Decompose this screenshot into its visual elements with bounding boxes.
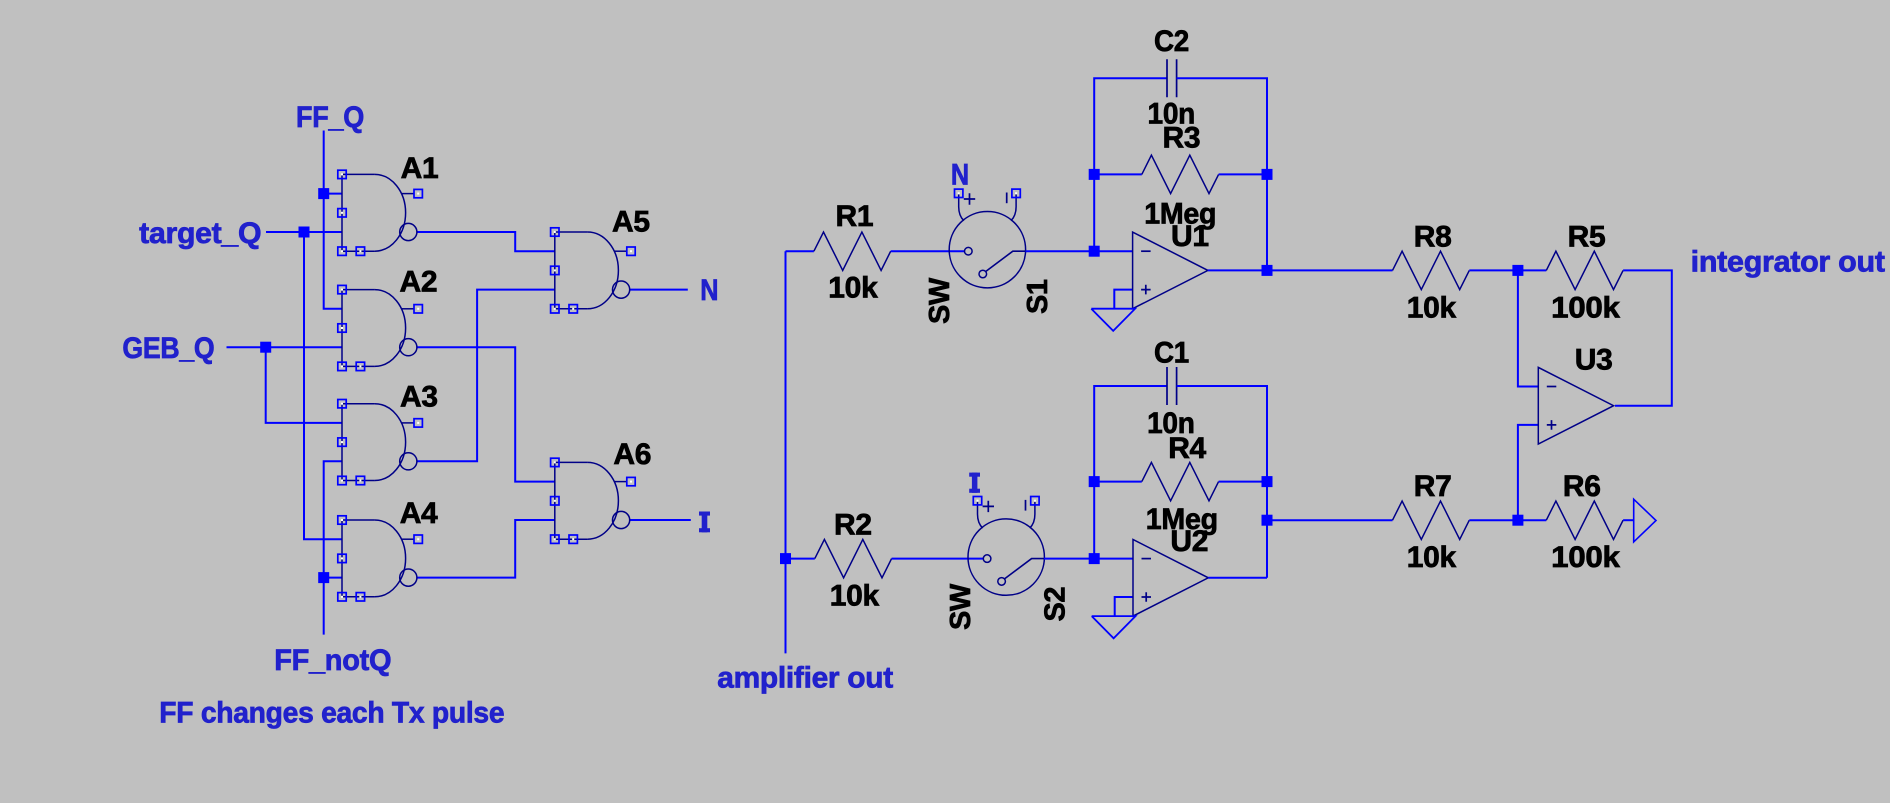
NAND gate A4 [338,516,423,601]
svg-text:A2: A2 [400,265,438,298]
wire R2 left lead [786,558,815,560]
svg-text:10k: 10k [1407,291,1457,324]
wire feedback left rail up to C1 [1094,386,1167,559]
net I label (A6 output) [699,512,710,533]
wire U1 non-inverting to ground [1114,290,1132,309]
wire U1 output [1208,269,1267,271]
wire R1 to S1 [891,250,965,252]
NAND gate A1 [338,170,423,255]
node junction R2 branch [780,553,791,564]
op-amp U1 [1133,232,1208,309]
svg-text:U2: U2 [1170,525,1208,558]
wire amplifier out vertical [785,251,787,653]
NAND gate A3 [338,400,423,485]
wire U1 inverting input [1094,250,1132,252]
node junction R8/R5/U3 [1512,265,1523,276]
wire R3 right lead [1219,173,1267,175]
node junction FF_Q/A1 [318,188,329,199]
svg-text:A6: A6 [613,438,651,471]
wire feedback left rail up to C2 [1094,78,1167,251]
svg-text:GEB_Q: GEB_Q [122,332,214,365]
capacitor C1 [1167,367,1177,405]
svg-text:R8: R8 [1414,220,1452,253]
wire R7 right lead [1469,519,1518,521]
svg-text:R7: R7 [1414,470,1452,503]
node junction target_Q [299,227,310,238]
resistor R4 [1142,462,1219,500]
capacitor C2 [1167,59,1177,97]
svg-text:FF_Q: FF_Q [296,101,364,134]
svg-text:10k: 10k [828,272,878,305]
resistor R3 [1142,155,1219,193]
wire R4 left lead [1094,481,1142,483]
svg-text:10k: 10k [830,579,880,612]
wire A2 output to A6 pin2 [417,347,555,481]
resistor R6 [1546,501,1623,539]
svg-text:R3: R3 [1163,122,1201,155]
resistor R5 [1546,251,1623,289]
svg-text:S2: S2 [1040,587,1072,621]
wire C1 right lead and right rail down [1177,386,1267,578]
wire FF_notQ stub to A4 pin4 [324,577,342,579]
svg-text:S1: S1 [1022,279,1054,314]
wire R2 to S2 [892,558,984,560]
svg-text:FF_notQ: FF_notQ [274,644,391,677]
svg-text:SW: SW [924,277,956,324]
svg-text:N: N [951,159,969,192]
svg-text:10k: 10k [1407,541,1457,574]
svg-text:R4: R4 [1168,432,1206,465]
switch S2 [968,496,1044,595]
wire GEB_Q horizontal to A2 pin4 [227,346,343,348]
resistor R1 [814,232,891,270]
wire R7 left lead [1267,519,1393,521]
wire R6 left lead [1518,519,1546,521]
wire C2 right lead and right rail down [1177,78,1267,270]
node junction R4 right [1262,476,1273,487]
svg-text:integrator out: integrator out [1691,246,1885,279]
NAND gate A6 [551,458,636,543]
svg-text:C2: C2 [1154,25,1189,58]
wire target_Q vertical to A4 pin2 [304,232,342,539]
svg-text:U1: U1 [1171,220,1209,253]
svg-text:R6: R6 [1563,470,1601,503]
wire U2 output [1208,577,1267,579]
wire A6 output to net I [630,519,691,521]
wire target_Q horizontal to A1 pin4 [266,231,342,233]
svg-text:R1: R1 [836,200,874,233]
node junction GEB_Q [260,342,271,353]
wire U2 inverting input [1094,558,1133,560]
wire FF_Q vertical to A1/A2 [324,131,342,309]
svg-text:R5: R5 [1568,220,1606,253]
node junction R7/R6/U3+ [1512,515,1523,526]
wire R3 left lead [1094,173,1142,175]
NAND gate A2 [338,285,423,370]
op-amp U3 [1538,367,1613,444]
node junction U1 output [1262,265,1273,276]
wire FF_Q stub to A1 pin2 [324,193,342,195]
svg-text:U3: U3 [1575,344,1613,377]
resistor R8 [1393,251,1470,289]
svg-text:amplifier out: amplifier out [717,662,893,695]
svg-text:100k: 100k [1551,541,1620,574]
wire A4 output to A6 pin4 [417,520,555,578]
output arrow flag [1634,499,1656,542]
node junction R4 left [1089,476,1100,487]
wire A3 output to A5 pin4 [417,290,555,462]
svg-text:A3: A3 [400,381,438,414]
node junction U1 input [1089,246,1100,257]
wire R4 right lead [1219,481,1267,483]
svg-text:A4: A4 [400,497,438,530]
node junction FF_notQ/A4 [318,572,329,583]
wire U3 non-inverting route [1518,425,1538,520]
svg-text:SW: SW [945,583,977,630]
svg-text:R2: R2 [834,509,872,542]
wire R8 right lead [1469,269,1518,271]
wire S1 to U1 junction [1026,250,1095,252]
wire R6 right lead [1623,519,1634,521]
wire U3 inverting route [1518,270,1538,386]
wire R5 right lead and feedback to U3 output [1615,270,1672,405]
svg-text:A5: A5 [612,205,650,238]
wire R8 left lead [1267,269,1393,271]
node junction R3 left [1089,169,1100,180]
wire R1 left lead [786,250,814,252]
wire GEB_Q vertical to A3 pin2 [266,347,342,423]
NAND gate A5 [551,228,636,313]
ground (U2 non-inverting) [1092,616,1136,638]
resistor R2 [815,539,892,577]
svg-text:100k: 100k [1551,291,1620,324]
wire S2 to U2 junction [1044,558,1094,560]
svg-text:A1: A1 [401,152,439,185]
wire FF_notQ vertical to A3 pin4 [324,461,342,634]
svg-text:FF changes each Tx pulse: FF changes each Tx pulse [159,697,504,730]
net I label (S2 control) [969,473,980,493]
node junction R3 right [1262,169,1273,180]
wire A1 output to A5 pin2 [417,232,555,251]
switch S1 [949,189,1025,288]
wire A5 output to net N [630,289,688,291]
op-amp U2 [1133,540,1208,617]
wire R5 left lead [1518,269,1546,271]
svg-text:N: N [700,274,718,307]
ground (U1 non-inverting) [1091,309,1135,331]
svg-text:target_Q: target_Q [139,217,261,250]
wire U2 non-inverting to ground [1115,597,1133,616]
node junction R7 branch [1262,515,1273,526]
svg-text:C1: C1 [1154,337,1189,370]
resistor R7 [1393,501,1470,539]
node junction U2 input [1089,553,1100,564]
